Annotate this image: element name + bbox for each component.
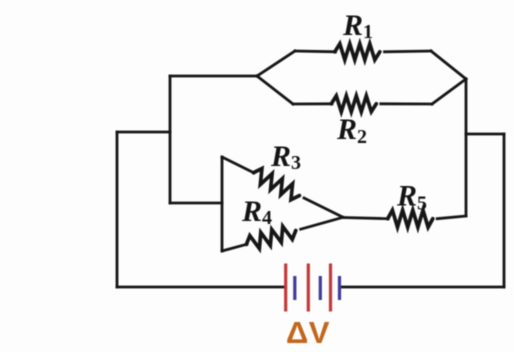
wire: bottom left to battery [117, 286, 284, 289]
battery plate positive 3 [329, 264, 332, 312]
wire: R3 left lead (diagonal) [222, 157, 254, 173]
battery plate positive 2 [307, 264, 310, 312]
resistor R4 [244, 223, 297, 251]
svg-text:R4: R4 [241, 195, 272, 229]
svg-text:R3: R3 [270, 140, 301, 174]
battery plate negative 2 [319, 276, 322, 300]
battery plate negative 1 [293, 276, 296, 300]
wire: to triangle left edge [170, 202, 222, 205]
wire: R1 left lead [295, 50, 336, 54]
wire: R3 right lead (diagonal) [304, 198, 343, 217]
svg-text:R5: R5 [396, 180, 427, 215]
wire: diamond lower-left diagonal [257, 76, 293, 104]
wire: tap to outer-left [117, 131, 170, 134]
resistor R5 [388, 210, 433, 227]
wire: triangle left edge [221, 157, 224, 251]
wire: outer-left vertical [116, 132, 119, 287]
svg-text:R1: R1 [342, 9, 373, 43]
wire: R4 right lead (diagonal) [301, 217, 343, 229]
wire: outer-right vertical [503, 134, 506, 287]
wire: apex to R5 [343, 218, 388, 219]
wire top: diamond left vertex to inner-left vertical [170, 75, 257, 78]
wire: R4 left lead (diagonal) [222, 244, 247, 251]
wire: diamond upper-left diagonal [257, 51, 295, 76]
svg-text:R2: R2 [336, 113, 367, 148]
wire: diamond upper-right diagonal [431, 51, 466, 79]
resistor R3 [250, 166, 303, 202]
battery plate positive 1 [284, 264, 287, 312]
battery plate negative 3 [338, 276, 341, 300]
wire: R5 to right node [437, 216, 466, 219]
resistor R2 [331, 96, 376, 112]
wire: R2 left lead [293, 102, 332, 105]
wire: battery to bottom right corner [341, 286, 504, 289]
wire: inner-left vertical down [169, 76, 172, 203]
resistor R1 [335, 44, 380, 60]
wire: right tap to node [466, 133, 504, 136]
wire: right node vertical (diamond vertex to R5) [465, 79, 468, 216]
svg-text:ΔV: ΔV [286, 315, 330, 350]
wire: diamond lower-right diagonal [432, 79, 466, 104]
wire: R1 right lead [385, 50, 432, 54]
wire: R2 right lead [381, 102, 432, 105]
